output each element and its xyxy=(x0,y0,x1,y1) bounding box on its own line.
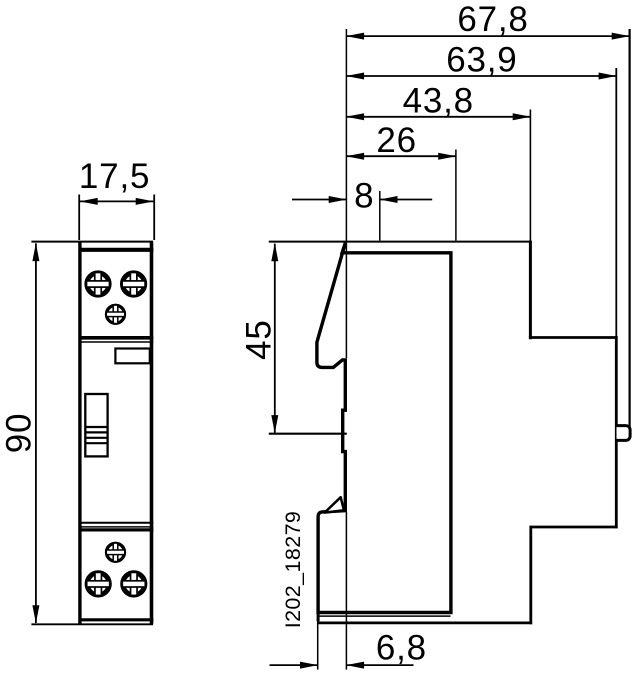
svg-text:8: 8 xyxy=(354,177,374,216)
svg-text:43,8: 43,8 xyxy=(403,82,474,121)
svg-text:67,8: 67,8 xyxy=(457,0,528,39)
svg-text:6,8: 6,8 xyxy=(376,629,427,668)
svg-text:I202_18279: I202_18279 xyxy=(281,511,305,629)
svg-text:45: 45 xyxy=(239,319,278,360)
svg-text:90: 90 xyxy=(0,413,39,454)
svg-text:63,9: 63,9 xyxy=(446,41,517,80)
svg-text:26: 26 xyxy=(376,121,417,160)
svg-text:17,5: 17,5 xyxy=(79,157,150,196)
